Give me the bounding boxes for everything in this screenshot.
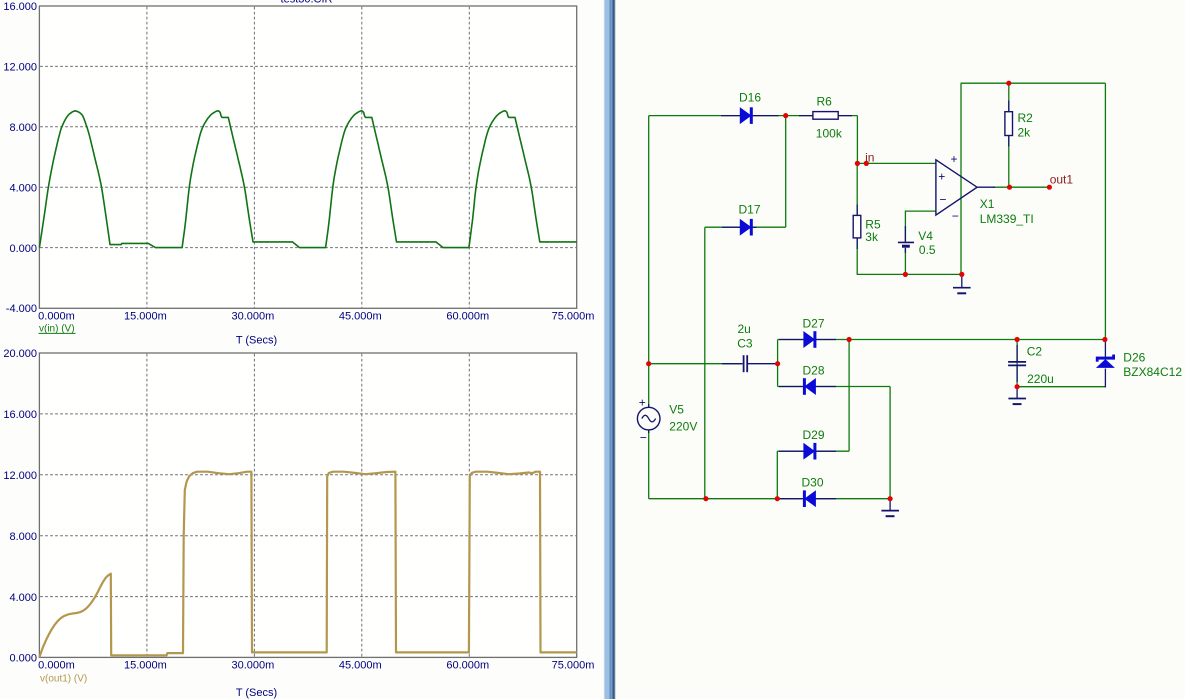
svg-text:0.5: 0.5 xyxy=(919,243,936,257)
ground (op-amp) xyxy=(953,277,971,293)
svg-text:BZX84C12: BZX84C12 xyxy=(1123,365,1182,379)
node bottom rail 1 xyxy=(703,496,708,501)
wire C2 to D26 bottom xyxy=(1017,386,1105,388)
source V5 xyxy=(637,395,660,444)
node D26 top xyxy=(1102,337,1107,342)
trace v(out1) xyxy=(39,472,576,658)
plot 1 x labels xyxy=(38,311,594,323)
plot 1 gridlines xyxy=(40,7,576,308)
trace 1 legend xyxy=(39,324,76,335)
diode D27 xyxy=(779,331,836,348)
svg-text:D17: D17 xyxy=(739,203,761,217)
wire D17 row xyxy=(705,226,786,228)
svg-text:0.000: 0.000 xyxy=(9,653,37,665)
diode D16 xyxy=(721,107,779,124)
svg-text:R2: R2 xyxy=(1018,111,1034,125)
svg-text:D28: D28 xyxy=(803,364,825,378)
battery V4 xyxy=(898,226,914,253)
svg-text:+: + xyxy=(951,152,958,166)
svg-text:15.000m: 15.000m xyxy=(124,311,167,323)
node out1 (R2) xyxy=(1007,185,1012,190)
wire V5 bottom to ground rail xyxy=(648,430,650,499)
svg-text:2k: 2k xyxy=(1018,126,1032,140)
svg-text:out1: out1 xyxy=(1050,172,1074,186)
node C2 top xyxy=(1015,337,1020,342)
svg-text:D16: D16 xyxy=(739,91,761,105)
svg-text:220V: 220V xyxy=(669,420,697,434)
wire C3 right junction vertical xyxy=(777,340,779,387)
svg-text:v(out1) (V): v(out1) (V) xyxy=(40,674,87,685)
diode D17 xyxy=(722,219,757,236)
wire top-left rail xyxy=(649,115,858,117)
resistor R2 xyxy=(1005,101,1013,147)
svg-text:V5: V5 xyxy=(669,403,684,417)
svg-text:12.000: 12.000 xyxy=(3,470,37,482)
resistor R6 xyxy=(799,112,852,120)
wire V4 bottom xyxy=(904,249,906,275)
wire R6 to in node xyxy=(856,116,858,164)
svg-text:100k: 100k xyxy=(816,127,843,141)
wire D29 row xyxy=(777,450,849,452)
node in (corner) xyxy=(855,161,860,166)
svg-text:0.000m: 0.000m xyxy=(38,311,75,323)
svg-text:2u: 2u xyxy=(738,322,751,336)
wire right vertical xyxy=(1104,83,1106,339)
svg-text:30.000m: 30.000m xyxy=(231,311,274,323)
svg-text:45.000m: 45.000m xyxy=(339,659,382,671)
svg-text:T (Secs): T (Secs) xyxy=(236,687,277,699)
wire D27 junction down to D29 xyxy=(848,340,850,452)
svg-text:4.000: 4.000 xyxy=(9,182,37,194)
svg-text:20.000: 20.000 xyxy=(3,348,37,360)
wire op-amp power vertical xyxy=(960,83,962,274)
svg-text:3k: 3k xyxy=(865,230,879,244)
wire C3 row xyxy=(649,363,741,365)
wire in node to op-amp xyxy=(857,162,936,164)
ground (C2) xyxy=(1008,389,1026,404)
node C2 bottom xyxy=(1015,384,1020,389)
svg-text:0.000: 0.000 xyxy=(9,243,37,255)
plot 2 x labels xyxy=(38,659,594,671)
wire R5 vertical xyxy=(856,163,858,274)
diode D28 xyxy=(779,378,836,395)
svg-text:D27: D27 xyxy=(803,316,825,330)
svg-text:D29: D29 xyxy=(803,428,825,442)
trace v(in) xyxy=(39,111,576,248)
capacitor C3 xyxy=(722,355,778,372)
svg-text:220u: 220u xyxy=(1027,372,1054,386)
svg-text:LM339_TI: LM339_TI xyxy=(980,212,1034,226)
wire D28 right vertical xyxy=(889,387,891,499)
node R2 top xyxy=(1006,81,1011,86)
op-amp X1 xyxy=(936,152,995,223)
svg-text:8.000: 8.000 xyxy=(9,122,37,134)
wire bottom rail xyxy=(649,498,890,500)
plot 2 y labels xyxy=(3,348,37,664)
node out1 xyxy=(1047,185,1052,190)
svg-text:60.000m: 60.000m xyxy=(446,311,489,323)
wire D16 junction down to D17 xyxy=(785,116,787,228)
svg-text:-4.000: -4.000 xyxy=(6,303,37,315)
plot 2 frame xyxy=(39,353,576,657)
svg-text:D30: D30 xyxy=(802,475,824,489)
svg-text:−: − xyxy=(939,192,946,206)
svg-text:T (Secs): T (Secs) xyxy=(236,335,277,347)
node op-amp gnd xyxy=(959,272,964,277)
wire top power rail xyxy=(961,82,1106,84)
ground (bottom rail) xyxy=(881,501,899,516)
node C3-D27-D28 xyxy=(775,361,780,366)
plot 1 frame xyxy=(39,6,576,308)
svg-text:12.000: 12.000 xyxy=(3,62,37,74)
svg-text:45.000m: 45.000m xyxy=(339,311,382,323)
diode D29 xyxy=(779,443,836,460)
node in xyxy=(864,161,869,166)
svg-text:8.000: 8.000 xyxy=(9,531,37,543)
node V4 gnd rail xyxy=(903,272,908,277)
wire R2 branch xyxy=(1008,83,1010,187)
svg-text:+: + xyxy=(639,395,646,409)
svg-text:−: − xyxy=(952,209,959,223)
wire out1 xyxy=(993,186,1049,188)
wire inverting input xyxy=(905,211,936,241)
wire D28 row xyxy=(778,386,891,388)
svg-text:16.000: 16.000 xyxy=(3,409,37,421)
wire D27 row xyxy=(778,339,1105,341)
svg-text:16.000: 16.000 xyxy=(3,1,37,13)
svg-text:15.000m: 15.000m xyxy=(124,659,167,671)
node bottom rail 2 xyxy=(775,496,780,501)
splitter bar xyxy=(603,0,616,699)
zener diode D26 xyxy=(1096,342,1115,367)
node D16-R6 xyxy=(783,113,788,118)
wire C2 vertical xyxy=(1016,340,1018,387)
svg-text:in: in xyxy=(865,150,874,164)
svg-text:75.000m: 75.000m xyxy=(552,311,595,323)
svg-text:60.000m: 60.000m xyxy=(446,659,489,671)
svg-text:0.000m: 0.000m xyxy=(38,659,75,671)
svg-text:4.000: 4.000 xyxy=(9,592,37,604)
svg-text:R6: R6 xyxy=(817,94,833,108)
svg-text:75.000m: 75.000m xyxy=(552,659,595,671)
svg-text:test30.CIR: test30.CIR xyxy=(281,0,333,6)
wire comparator ground rail xyxy=(857,273,962,275)
capacitor C2 xyxy=(1008,345,1026,382)
plot 1 y labels xyxy=(3,1,37,315)
resistor R5 xyxy=(853,205,861,250)
svg-text:X1: X1 xyxy=(980,197,995,211)
schematic background xyxy=(616,0,1185,699)
svg-text:C3: C3 xyxy=(737,337,753,351)
node bottom rail gnd xyxy=(888,496,893,501)
svg-text:V4: V4 xyxy=(918,229,933,243)
svg-text:C2: C2 xyxy=(1027,345,1043,359)
svg-text:−: − xyxy=(640,431,647,445)
wire D17 left vertical xyxy=(704,227,706,499)
svg-text:D26: D26 xyxy=(1123,351,1145,365)
node V5-C3 xyxy=(646,361,651,366)
wire left vertical (V5 branch) xyxy=(648,116,650,408)
svg-text:30.000m: 30.000m xyxy=(231,659,274,671)
diode D30 xyxy=(779,490,836,507)
wire D29 left vertical xyxy=(776,451,778,499)
wire D26 bottom vertical xyxy=(1104,369,1106,388)
node D27-D29 xyxy=(847,337,852,342)
plot 2 gridlines xyxy=(40,354,576,657)
svg-text:+: + xyxy=(938,169,945,183)
